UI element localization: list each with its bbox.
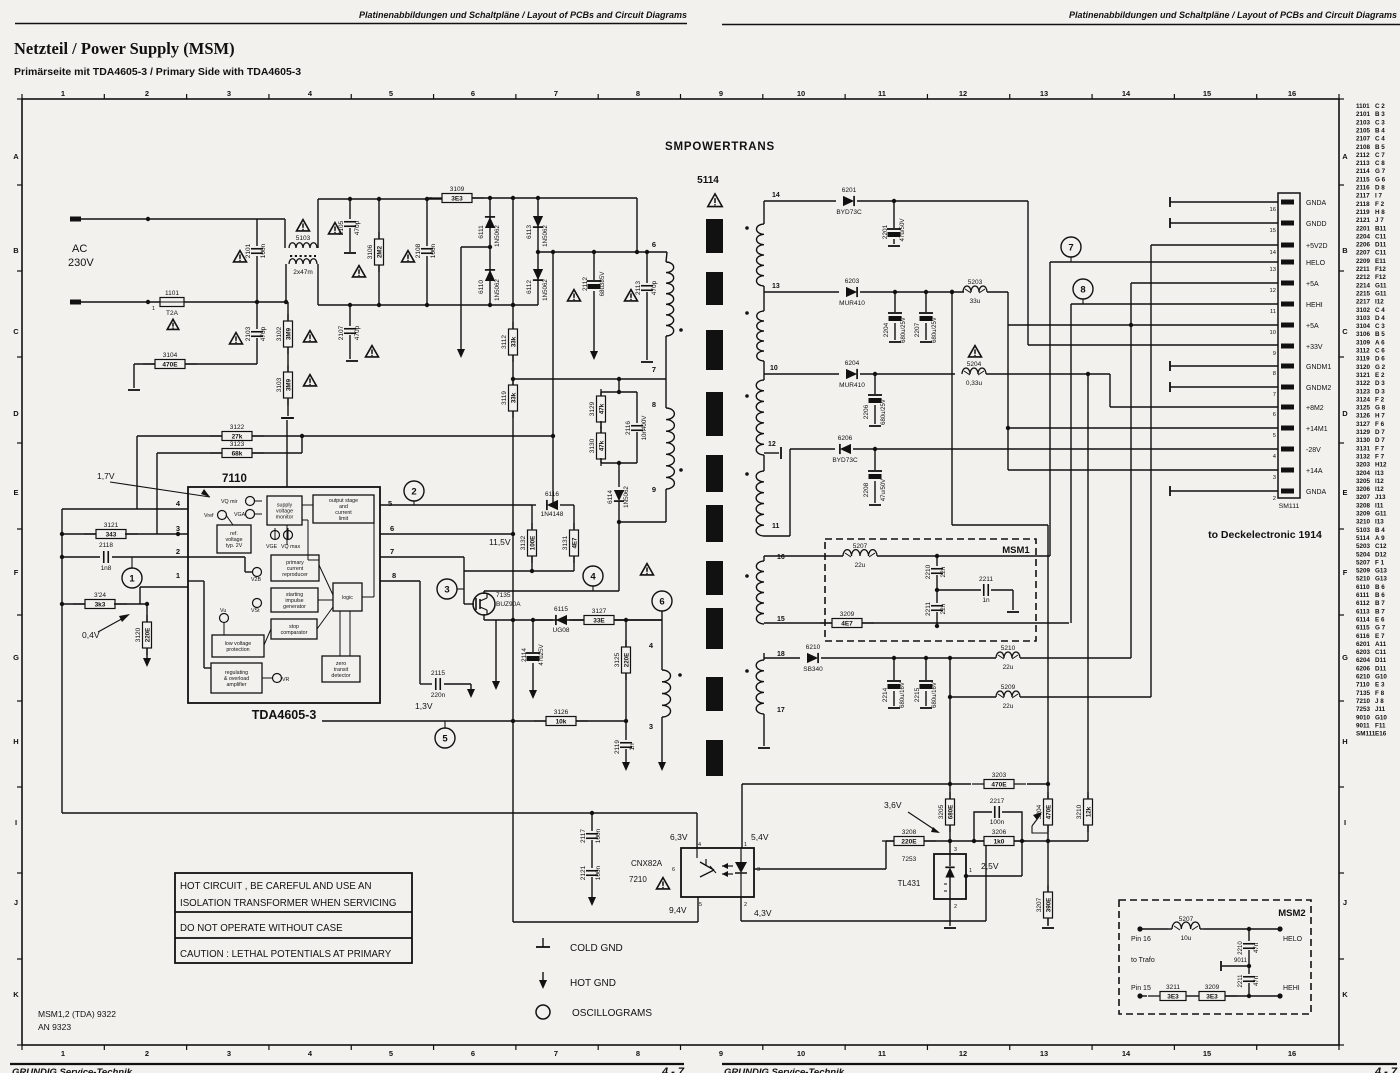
svg-text:3: 3 <box>1273 475 1276 481</box>
svg-text:3104: 3104 <box>1356 323 1371 330</box>
svg-text:G 6: G 6 <box>1375 176 1386 183</box>
node TL431 ref <box>964 874 968 878</box>
svg-text:10: 10 <box>770 365 778 372</box>
svg-text:3119: 3119 <box>1356 356 1370 363</box>
svg-text:1,7V: 1,7V <box>97 471 115 481</box>
warning left of 2103 <box>230 333 243 344</box>
svg-text:5209: 5209 <box>1001 684 1016 691</box>
svg-text:15: 15 <box>1270 228 1276 234</box>
svg-text:BUZ90A: BUZ90A <box>496 601 521 608</box>
svg-text:1n: 1n <box>629 743 636 751</box>
svg-text:GNDD: GNDD <box>1306 221 1327 228</box>
wire 5209 out <box>1020 696 1151 698</box>
svg-text:9: 9 <box>652 485 656 494</box>
wire bottom rail B <box>318 304 538 306</box>
svg-text:3120: 3120 <box>1356 364 1371 371</box>
node pin7 x512 <box>511 377 515 381</box>
svg-text:6: 6 <box>471 89 475 98</box>
wire GNDM2 stub <box>1169 382 1171 392</box>
SM111 pin 5 +14M1 <box>1281 426 1294 431</box>
svg-text:3132: 3132 <box>520 535 527 550</box>
IC 7253 TL431 <box>934 854 966 899</box>
svg-text:HELO: HELO <box>1306 260 1326 267</box>
svg-text:E 3: E 3 <box>1375 682 1385 689</box>
svg-text:8: 8 <box>1273 371 1276 377</box>
svg-text:C: C <box>1342 327 1348 336</box>
svg-text:6204: 6204 <box>1356 657 1371 664</box>
block starting <box>271 588 318 612</box>
svg-text:7: 7 <box>1273 392 1276 398</box>
svg-text:Pin 15: Pin 15 <box>1131 985 1151 992</box>
svg-text:12: 12 <box>768 441 776 448</box>
svg-text:3E3: 3E3 <box>1167 994 1179 1001</box>
svg-text:5,4V: 5,4V <box>751 832 769 842</box>
svg-text:A: A <box>1342 152 1348 161</box>
svg-text:1: 1 <box>61 1049 65 1058</box>
MSM2 dashed box <box>1119 900 1311 1014</box>
svg-text:HEHI: HEHI <box>1306 302 1323 309</box>
svg-text:3127: 3127 <box>1356 421 1371 428</box>
ground 2212 <box>1007 611 1019 613</box>
svg-text:G11: G11 <box>1375 290 1387 297</box>
resistor 3120 220E <box>146 604 148 622</box>
svg-text:5204: 5204 <box>1356 551 1371 558</box>
svg-text:C: C <box>13 327 19 336</box>
svg-text:100n: 100n <box>595 828 602 843</box>
svg-text:2208: 2208 <box>863 482 870 497</box>
legend oscillograms <box>536 1005 550 1019</box>
wire +5A row top <box>1131 282 1278 284</box>
resistor 3210 12k <box>1087 374 1089 799</box>
wire 3123 drop <box>156 453 158 534</box>
svg-text:6111: 6111 <box>478 225 485 239</box>
svg-text:5103: 5103 <box>296 235 311 242</box>
svg-text:ISOLATION TRANSFORMER WHEN SER: ISOLATION TRANSFORMER WHEN SERVICING <box>180 898 396 909</box>
wire pin1 row <box>140 586 188 588</box>
node 3122 out <box>300 434 304 438</box>
svg-text:6: 6 <box>1273 412 1276 418</box>
svg-text:A: A <box>13 152 19 161</box>
svg-text:monitor: monitor <box>276 515 294 521</box>
IC pin2 internal stub <box>188 556 245 558</box>
aux winding 4-3 <box>661 611 663 670</box>
svg-text:5210: 5210 <box>1356 576 1371 583</box>
wire +14M1 row <box>1008 427 1278 429</box>
transformer core bars <box>706 219 723 253</box>
resistor 3121 343 <box>62 533 97 535</box>
resistor 3206 1k0 <box>972 840 1026 842</box>
svg-text:8: 8 <box>636 1049 640 1058</box>
svg-text:G 8: G 8 <box>1375 405 1386 412</box>
svg-text:2107: 2107 <box>338 325 345 340</box>
svg-text:UG08: UG08 <box>553 627 570 634</box>
svg-text:2204: 2204 <box>1356 233 1371 240</box>
svg-text:390E: 390E <box>1046 898 1053 912</box>
svg-text:MUR410: MUR410 <box>839 382 865 389</box>
svg-text:F 2: F 2 <box>1375 201 1385 208</box>
wire feedback net x952 <box>951 292 953 525</box>
svg-text:5207: 5207 <box>853 543 868 550</box>
wire source <box>483 614 485 620</box>
node 3203 out at 1048 <box>1046 782 1050 786</box>
svg-text:12k: 12k <box>1086 806 1093 817</box>
svg-text:3209: 3209 <box>1205 984 1220 991</box>
svg-text:3119: 3119 <box>501 391 508 405</box>
secondary winding 16-15 <box>763 556 765 561</box>
svg-text:2101: 2101 <box>245 243 252 258</box>
svg-text:1: 1 <box>176 571 180 580</box>
resistor 3103 3M9 <box>287 365 289 405</box>
block stop <box>271 619 317 639</box>
node AC2 c <box>284 300 288 304</box>
AC input terminal lower <box>70 300 81 305</box>
svg-text:TDA4605-3: TDA4605-3 <box>252 708 317 722</box>
wire top feedback rail <box>742 783 950 785</box>
svg-text:14: 14 <box>1122 1049 1131 1058</box>
node 2118 <box>60 555 64 559</box>
wire +5V2D riser <box>1150 245 1152 697</box>
capacitor 2211 22n <box>936 590 938 603</box>
wire 18 rail <box>764 657 800 659</box>
svg-text:detector: detector <box>331 673 350 679</box>
svg-text:2115: 2115 <box>431 670 445 677</box>
svg-text:8: 8 <box>652 400 656 409</box>
svg-text:3: 3 <box>227 1049 231 1058</box>
wire 10 rail <box>764 373 839 375</box>
svg-text:6,3V: 6,3V <box>670 832 688 842</box>
svg-text:G11: G11 <box>1375 282 1387 289</box>
svg-text:+14A: +14A <box>1306 468 1323 475</box>
svg-text:1: 1 <box>744 842 747 848</box>
node 3210 feed <box>1086 372 1090 376</box>
wire -28V rail <box>875 448 1278 450</box>
secondary winding 14-13-10-12-11 <box>763 201 765 224</box>
svg-text:1: 1 <box>152 306 155 312</box>
svg-text:C 2: C 2 <box>1375 103 1385 110</box>
svg-text:2117: 2117 <box>580 829 587 843</box>
diode 6114 1N5062 <box>618 463 620 487</box>
svg-text:CNX82A: CNX82A <box>631 859 663 868</box>
primary dot b <box>679 468 683 472</box>
svg-text:2207: 2207 <box>1356 250 1371 257</box>
oscillogram point 5 <box>435 728 455 748</box>
svg-text:-28V: -28V <box>1306 447 1321 454</box>
svg-text:22u: 22u <box>1003 664 1014 671</box>
svg-text:9: 9 <box>1273 351 1276 357</box>
svg-text:SMPOWERTRANS: SMPOWERTRANS <box>665 141 775 153</box>
block logic <box>333 583 362 611</box>
wire opto bottom rail <box>513 921 698 923</box>
svg-text:V2B: V2B <box>251 577 261 583</box>
wire 5210 out <box>1020 657 1131 659</box>
svg-text:B11: B11 <box>1375 225 1387 232</box>
svg-text:Netzteil / Power Supply (MSM): Netzteil / Power Supply (MSM) <box>14 39 235 58</box>
svg-text:I13: I13 <box>1375 470 1384 477</box>
svg-text:3132: 3132 <box>1356 453 1371 460</box>
svg-text:I11: I11 <box>1375 502 1384 509</box>
svg-text:4: 4 <box>590 572 596 583</box>
primary dot a <box>679 328 683 332</box>
node mid 1048 <box>1046 839 1050 843</box>
svg-text:3208: 3208 <box>902 829 917 836</box>
capacitor 2121 100n <box>586 870 598 872</box>
warning below 3106 <box>353 266 366 277</box>
svg-text:2210: 2210 <box>1238 941 1244 955</box>
diode 6111 1N5062 <box>489 198 491 305</box>
svg-text:5207: 5207 <box>1356 559 1371 566</box>
wire source row <box>484 619 662 621</box>
capacitor 2214 680u16V <box>893 658 895 680</box>
svg-text:47u25V: 47u25V <box>538 643 545 665</box>
svg-text:3131: 3131 <box>562 535 569 550</box>
wire 16 row <box>764 555 843 557</box>
resistor 3124 3k3 <box>62 603 86 605</box>
svg-text:2x47m: 2x47m <box>293 269 313 276</box>
svg-text:11,5V: 11,5V <box>489 537 511 547</box>
svg-text:3M9: 3M9 <box>286 327 293 340</box>
svg-text:6116: 6116 <box>545 491 559 498</box>
svg-text:3130: 3130 <box>589 438 596 453</box>
svg-text:H: H <box>1342 737 1347 746</box>
capacitor 2210b 47n <box>1248 929 1250 941</box>
svg-text:3112: 3112 <box>501 335 508 349</box>
svg-text:CAUTION : LETHAL POTENTIALS AT: CAUTION : LETHAL POTENTIALS AT PRIMARY <box>180 949 392 960</box>
svg-text:14: 14 <box>1270 250 1277 256</box>
svg-text:amplifier: amplifier <box>226 682 246 688</box>
svg-text:J 7: J 7 <box>1375 217 1384 224</box>
svg-text:2: 2 <box>176 547 180 556</box>
svg-text:8: 8 <box>636 89 640 98</box>
wire +33V feed riser <box>1027 201 1029 345</box>
svg-text:+5A: +5A <box>1306 281 1319 288</box>
svg-text:2207: 2207 <box>914 322 921 337</box>
node bottom 3112 <box>511 303 515 307</box>
svg-text:2113: 2113 <box>1356 160 1370 167</box>
node 5209 in <box>948 695 952 699</box>
svg-text:470p: 470p <box>651 280 658 295</box>
node 3126 x512 <box>511 719 515 723</box>
svg-text:G13: G13 <box>1375 568 1387 575</box>
svg-text:B 7: B 7 <box>1375 608 1385 615</box>
svg-text:reproducer: reproducer <box>282 572 308 578</box>
svg-text:C11: C11 <box>1375 649 1387 656</box>
svg-text:6201: 6201 <box>1356 641 1371 648</box>
svg-text:3207: 3207 <box>1036 897 1043 912</box>
node 3126 right <box>624 719 628 723</box>
svg-text:2: 2 <box>411 487 416 498</box>
block primary <box>271 555 319 581</box>
svg-text:11: 11 <box>878 1049 886 1058</box>
svg-text:100n: 100n <box>990 819 1005 826</box>
svg-text:6: 6 <box>390 524 394 533</box>
svg-text:7253: 7253 <box>902 856 917 863</box>
capacitor 2212 1n <box>937 589 981 591</box>
svg-text:F 8: F 8 <box>1375 690 1385 697</box>
node bottom 2107 <box>348 303 352 307</box>
oscillogram point 6 <box>652 591 672 611</box>
svg-text:3204: 3204 <box>1356 470 1371 477</box>
svg-text:3203: 3203 <box>992 772 1007 779</box>
SM111 pin 6 +8M2 <box>1281 405 1294 410</box>
svg-text:D11: D11 <box>1375 665 1387 672</box>
svg-text:5210: 5210 <box>1001 645 1016 652</box>
resistor 3205 680E <box>949 784 951 799</box>
svg-text:B 5: B 5 <box>1375 331 1385 338</box>
capacitor 2119 1n <box>625 721 627 740</box>
svg-text:6204: 6204 <box>845 360 860 367</box>
resistor 3102 3M9 <box>287 302 289 321</box>
svg-text:5: 5 <box>442 734 448 745</box>
svg-text:5203: 5203 <box>968 279 983 286</box>
svg-text:3123: 3123 <box>230 441 245 448</box>
svg-text:1N5062: 1N5062 <box>623 486 630 508</box>
svg-text:MSM1,2 (TDA) 9322: MSM1,2 (TDA) 9322 <box>38 1009 116 1019</box>
wire 6114 to gate row <box>618 522 620 591</box>
node MSM2 HELO <box>1247 927 1251 931</box>
legend cold gnd <box>536 946 550 948</box>
IC test point VR <box>273 674 282 683</box>
capacitor 2117 100n <box>591 813 593 831</box>
svg-text:2212: 2212 <box>1356 274 1371 281</box>
resistor 3211 3E3 <box>1148 995 1198 997</box>
resistor 3127 33E <box>572 619 626 621</box>
resistor 3131 4E7 <box>573 523 575 563</box>
svg-text:2217: 2217 <box>990 798 1005 805</box>
svg-text:13: 13 <box>1270 267 1276 273</box>
svg-text:5209: 5209 <box>1356 568 1371 575</box>
resistor 3112 33k <box>512 322 514 362</box>
svg-text:3123: 3123 <box>1356 388 1371 395</box>
svg-text:D12: D12 <box>1375 551 1387 558</box>
svg-text:D11: D11 <box>1375 242 1387 249</box>
svg-text:12: 12 <box>1270 288 1276 294</box>
warning near coil 4 <box>641 564 654 575</box>
wire 986 riser <box>985 846 987 921</box>
wire drain <box>483 591 485 594</box>
wire pin7 row <box>513 378 666 380</box>
svg-text:8: 8 <box>1080 285 1085 296</box>
svg-text:6210: 6210 <box>806 644 821 651</box>
wire opto pin5 drop <box>697 897 699 922</box>
capacitor 2105 470p <box>349 199 351 219</box>
capacitor 2206 680u25V <box>874 374 876 394</box>
node AC2 a <box>146 300 150 304</box>
svg-text:2103: 2103 <box>245 326 252 341</box>
transistor 7135 BUZ90A MOSFET <box>473 593 495 615</box>
resistor 3126 10k <box>534 720 588 722</box>
svg-text:2112: 2112 <box>582 277 589 291</box>
svg-text:4: 4 <box>308 1049 313 1058</box>
svg-text:logic: logic <box>342 595 353 601</box>
svg-text:1101: 1101 <box>1356 103 1370 110</box>
svg-text:14: 14 <box>772 192 780 199</box>
footer rule left <box>10 1063 684 1065</box>
svg-text:D 6: D 6 <box>1375 356 1385 363</box>
svg-text:2: 2 <box>145 1049 149 1058</box>
node top rail 2108 <box>425 197 429 201</box>
svg-text:3E3: 3E3 <box>1206 994 1218 1001</box>
svg-text:B: B <box>13 246 19 255</box>
node AC2 b <box>255 300 259 304</box>
svg-text:2: 2 <box>744 902 747 908</box>
node mid 2113 <box>645 250 649 254</box>
svg-text:100E: 100E <box>530 536 537 550</box>
svg-text:H 7: H 7 <box>1375 413 1385 420</box>
svg-text:22u: 22u <box>855 562 866 569</box>
svg-text:E: E <box>13 488 18 497</box>
svg-text:7210: 7210 <box>1356 698 1371 705</box>
svg-text:7: 7 <box>1068 243 1073 254</box>
preset arrow 3204 <box>1032 826 1048 833</box>
capacitor 2103 470p <box>256 302 258 329</box>
node 3121 <box>60 532 64 536</box>
svg-text:2215: 2215 <box>1356 290 1371 297</box>
IC test point Vu <box>220 614 229 623</box>
capacitor 2207 680u25V <box>925 292 927 312</box>
wire GNDD stub <box>1169 218 1171 228</box>
svg-text:G: G <box>13 653 19 662</box>
capacitor 2107 470p <box>349 305 351 326</box>
svg-text:220n: 220n <box>431 692 446 699</box>
svg-text:protection: protection <box>226 647 249 653</box>
resistor 3209 4E7 <box>820 622 874 624</box>
oscillogram point 1 <box>122 568 142 588</box>
svg-text:6206: 6206 <box>838 435 853 442</box>
svg-text:D: D <box>13 409 19 418</box>
node mid 974 <box>972 839 976 843</box>
node 2117 top <box>590 811 594 815</box>
svg-text:3131: 3131 <box>1356 445 1371 452</box>
node mid 6112 <box>536 250 540 254</box>
svg-text:J13: J13 <box>1375 494 1386 501</box>
wire GNDM1 stub <box>1169 361 1171 371</box>
svg-text:5114: 5114 <box>697 175 719 186</box>
svg-text:343: 343 <box>106 532 117 539</box>
svg-text:G10: G10 <box>1375 714 1387 721</box>
svg-text:3: 3 <box>954 847 957 853</box>
svg-text:3126: 3126 <box>554 709 569 716</box>
wire main vertical x513 <box>512 198 514 922</box>
svg-text:B 6: B 6 <box>1375 592 1385 599</box>
svg-text:C 4: C 4 <box>1375 307 1385 314</box>
svg-text:6: 6 <box>659 597 664 608</box>
svg-text:10: 10 <box>1270 330 1276 336</box>
svg-text:11: 11 <box>878 89 886 98</box>
svg-text:9010: 9010 <box>1356 714 1371 721</box>
svg-text:2108: 2108 <box>1356 144 1371 151</box>
inductor 5207 22u <box>843 550 877 556</box>
svg-text:I12: I12 <box>1375 299 1384 306</box>
svg-text:G: G <box>1342 653 1348 662</box>
svg-text:F 2: F 2 <box>1375 396 1385 403</box>
svg-text:10u: 10u <box>1181 935 1192 942</box>
node 2215 <box>924 656 928 660</box>
wire ladder drop <box>618 379 620 392</box>
terminal 12 <box>780 447 782 459</box>
node AC1 <box>146 217 150 221</box>
svg-text:DO NOT OPERATE WITHOUT CASE: DO NOT OPERATE WITHOUT CASE <box>180 923 343 934</box>
wire +14A row <box>1008 469 1278 471</box>
resistor 3207 390E <box>1047 841 1049 892</box>
wire AC line 2 <box>81 301 160 303</box>
svg-text:3209: 3209 <box>840 611 855 618</box>
warning transformer <box>708 194 722 207</box>
node 3124 <box>60 602 64 606</box>
svg-text:1N5062: 1N5062 <box>542 225 549 247</box>
warning text box <box>175 873 412 963</box>
svg-text:3M9: 3M9 <box>286 378 293 391</box>
svg-text:4 - 7: 4 - 7 <box>1374 1066 1398 1073</box>
